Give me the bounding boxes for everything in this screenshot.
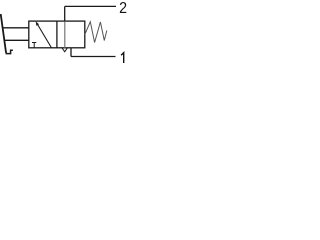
leader line to label 1 [71,56,116,58]
port label 1 [121,53,124,63]
valve box divider [56,21,58,48]
pedal lever arm [1,14,6,53]
right box exhaust flow line [64,21,66,48]
svg-text:2: 2 [119,0,127,17]
port 2 stub [64,6,66,21]
valve body outline [29,21,85,48]
left box flow path 1 to 2 [37,23,52,48]
upper link rod [3,27,29,29]
port 1 stub [70,48,72,57]
spring return [85,22,107,43]
left box arrowhead [36,21,39,25]
right box exhaust arrowhead [62,48,67,52]
left box blocked port T [32,43,36,48]
leader line to label 2 [65,5,116,7]
pedal foot step [6,50,13,53]
lower link rod [4,39,28,41]
